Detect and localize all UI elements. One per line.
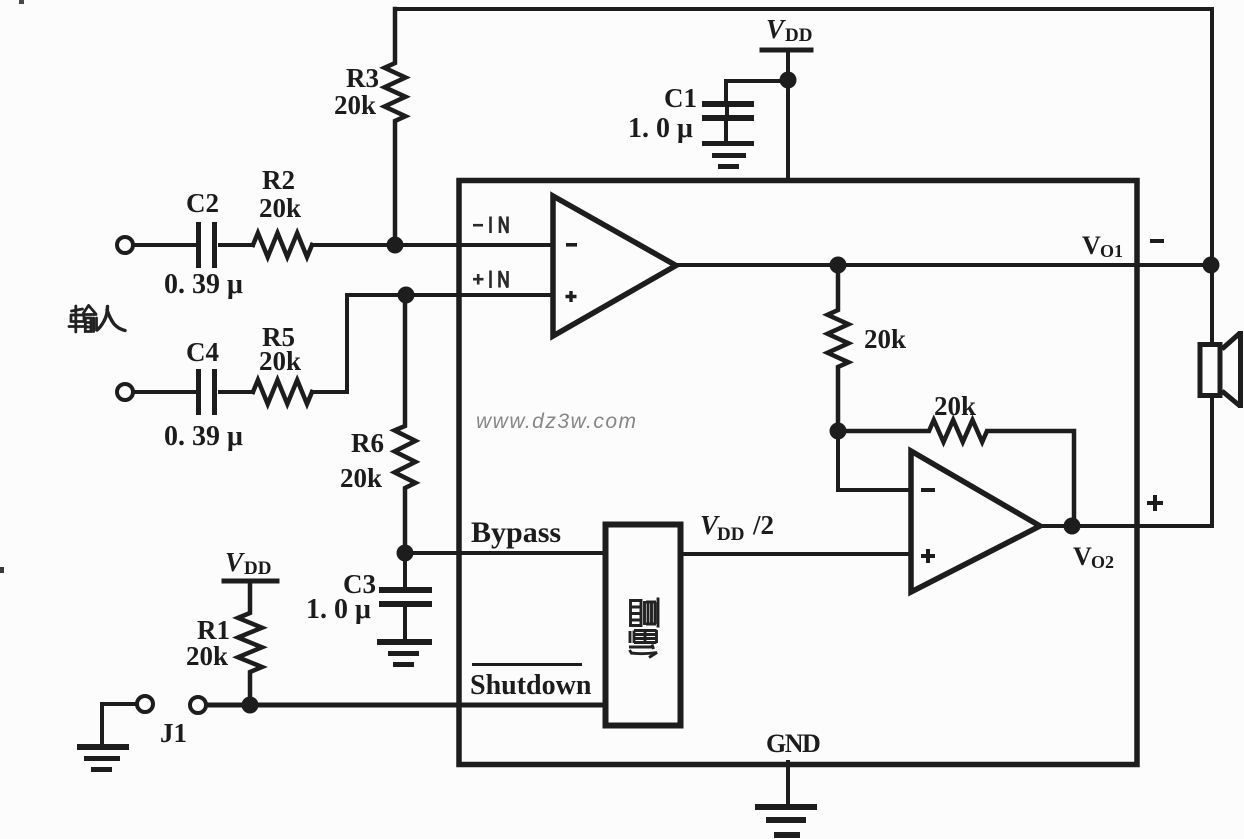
wire -IN row — [133, 243, 195, 247]
wire C1 tap — [726, 81, 788, 101]
svg-text:0. 39 μ: 0. 39 μ — [164, 269, 243, 300]
svg-text:Shutdown: Shutdown — [470, 670, 592, 701]
svg-text:R3: R3 — [346, 63, 379, 93]
svg-text:20k: 20k — [334, 90, 376, 120]
input terminal circle bottom — [117, 384, 133, 400]
capacitor C1 plates — [702, 101, 754, 107]
wire Bypass — [405, 551, 603, 555]
op-amp U1 — [553, 196, 676, 336]
op-amp U2 minus sign — [921, 488, 935, 492]
feedback resistor 20k vertical lead — [828, 265, 849, 431]
op-amp U2 — [911, 451, 1040, 592]
svg-text:GND: GND — [766, 729, 820, 758]
node dot VO1/right rail — [1203, 257, 1220, 274]
svg-text:C4: C4 — [186, 337, 219, 367]
resistor R2 — [253, 233, 312, 257]
svg-text:V: V — [225, 547, 245, 577]
label 偏置 (bias) hand-drawn rotated — [629, 598, 658, 658]
op-amp U2 plus sign — [921, 549, 935, 563]
resistor R6 — [395, 295, 416, 553]
wire VDD down to IC — [786, 50, 790, 180]
svg-text:R6: R6 — [351, 428, 384, 458]
ground under C3 — [377, 639, 432, 645]
ground under C1 — [702, 141, 754, 146]
svg-text:DD: DD — [785, 25, 812, 46]
resistor R1 — [238, 581, 262, 705]
wire +IN row — [133, 390, 195, 394]
wire top feedback from R3 top to right rail — [395, 7, 1212, 11]
svg-text:0. 39 μ: 0. 39 μ — [164, 421, 243, 452]
node dot Shutdown/R1 — [242, 697, 259, 714]
svg-text:20k: 20k — [934, 391, 976, 421]
svg-text:/2: /2 — [752, 510, 774, 540]
svg-text:O1: O1 — [1100, 241, 1123, 261]
svg-text:O2: O2 — [1091, 552, 1114, 572]
svg-text:C1: C1 — [664, 83, 697, 113]
svg-text:Bypass: Bypass — [471, 516, 561, 549]
J1 ground wire — [102, 704, 137, 744]
svg-text:DD: DD — [717, 524, 744, 545]
svg-text:20k: 20k — [259, 346, 301, 376]
J1 terminal circle left — [137, 696, 153, 712]
wire right rail upper (top to speaker) — [1210, 9, 1214, 342]
capacitor C3 leads — [403, 553, 407, 587]
wire VO1 output — [676, 263, 1212, 267]
svg-text:20k: 20k — [259, 193, 301, 223]
speaker — [1200, 345, 1220, 396]
svg-text:R2: R2 — [262, 165, 295, 195]
node dot -IN — [387, 237, 404, 254]
svg-text:20k: 20k — [864, 324, 906, 354]
op-amp U1 plus sign — [566, 291, 577, 302]
VDD symbol near R1 — [224, 579, 277, 584]
VDD top symbol — [762, 48, 811, 53]
capacitor C1 lower lead — [724, 121, 728, 141]
wire R5 up to +IN — [312, 295, 553, 392]
svg-text:20k: 20k — [340, 463, 382, 493]
wire right rail lower (speaker to VO2) — [1210, 398, 1214, 526]
svg-text:www.dz3w.com: www.dz3w.com — [476, 410, 638, 433]
node dot VO2 — [1064, 518, 1081, 535]
svg-text:V: V — [1082, 231, 1101, 260]
node dot +IN — [398, 287, 415, 304]
wire R2 to op-amp — [312, 243, 553, 247]
wire Shutdown — [206, 703, 603, 708]
svg-text:DD: DD — [244, 558, 271, 579]
svg-text:1. 0 μ: 1. 0 μ — [628, 113, 693, 144]
GND lead below IC — [786, 762, 790, 804]
node dot Bypass — [397, 545, 414, 562]
node dot VO1/feedback — [830, 257, 847, 274]
label +IN — [473, 271, 508, 289]
svg-text:V: V — [1073, 542, 1092, 571]
node dot VDD/C1 — [780, 72, 797, 89]
node dot feedback mid — [830, 423, 847, 440]
svg-text:J1: J1 — [160, 718, 187, 748]
J1 terminal circle right — [190, 697, 206, 713]
minus sign right of VO1 — [1150, 239, 1164, 243]
capacitor C3 plates — [379, 587, 432, 593]
svg-text:C2: C2 — [186, 188, 219, 218]
capacitor C2 plates — [196, 222, 201, 268]
ground below GND pin — [755, 804, 817, 810]
bias box 偏置 — [606, 525, 681, 726]
svg-text:1. 0 μ: 1. 0 μ — [306, 594, 371, 625]
op-amp U1 minus sign — [566, 243, 577, 247]
label -IN — [473, 217, 508, 234]
label 输入 (input) hand-drawn — [69, 306, 97, 333]
ground under J1 — [77, 744, 129, 750]
wire feedback node down to op2 minus — [838, 431, 911, 490]
capacitor C4 plates — [196, 369, 201, 415]
wire VDD/2 to op2 plus — [679, 552, 911, 556]
svg-text:20k: 20k — [186, 641, 228, 671]
plus sign near VO2 — [1147, 495, 1163, 511]
resistor R5 — [253, 380, 312, 404]
input terminal circle top — [117, 237, 133, 253]
wire VO2 output — [1040, 524, 1212, 528]
IC box — [459, 181, 1137, 765]
resistor R3 — [385, 9, 406, 245]
feedback resistor 20k horizontal — [838, 420, 1074, 526]
svg-text:V: V — [766, 14, 786, 44]
